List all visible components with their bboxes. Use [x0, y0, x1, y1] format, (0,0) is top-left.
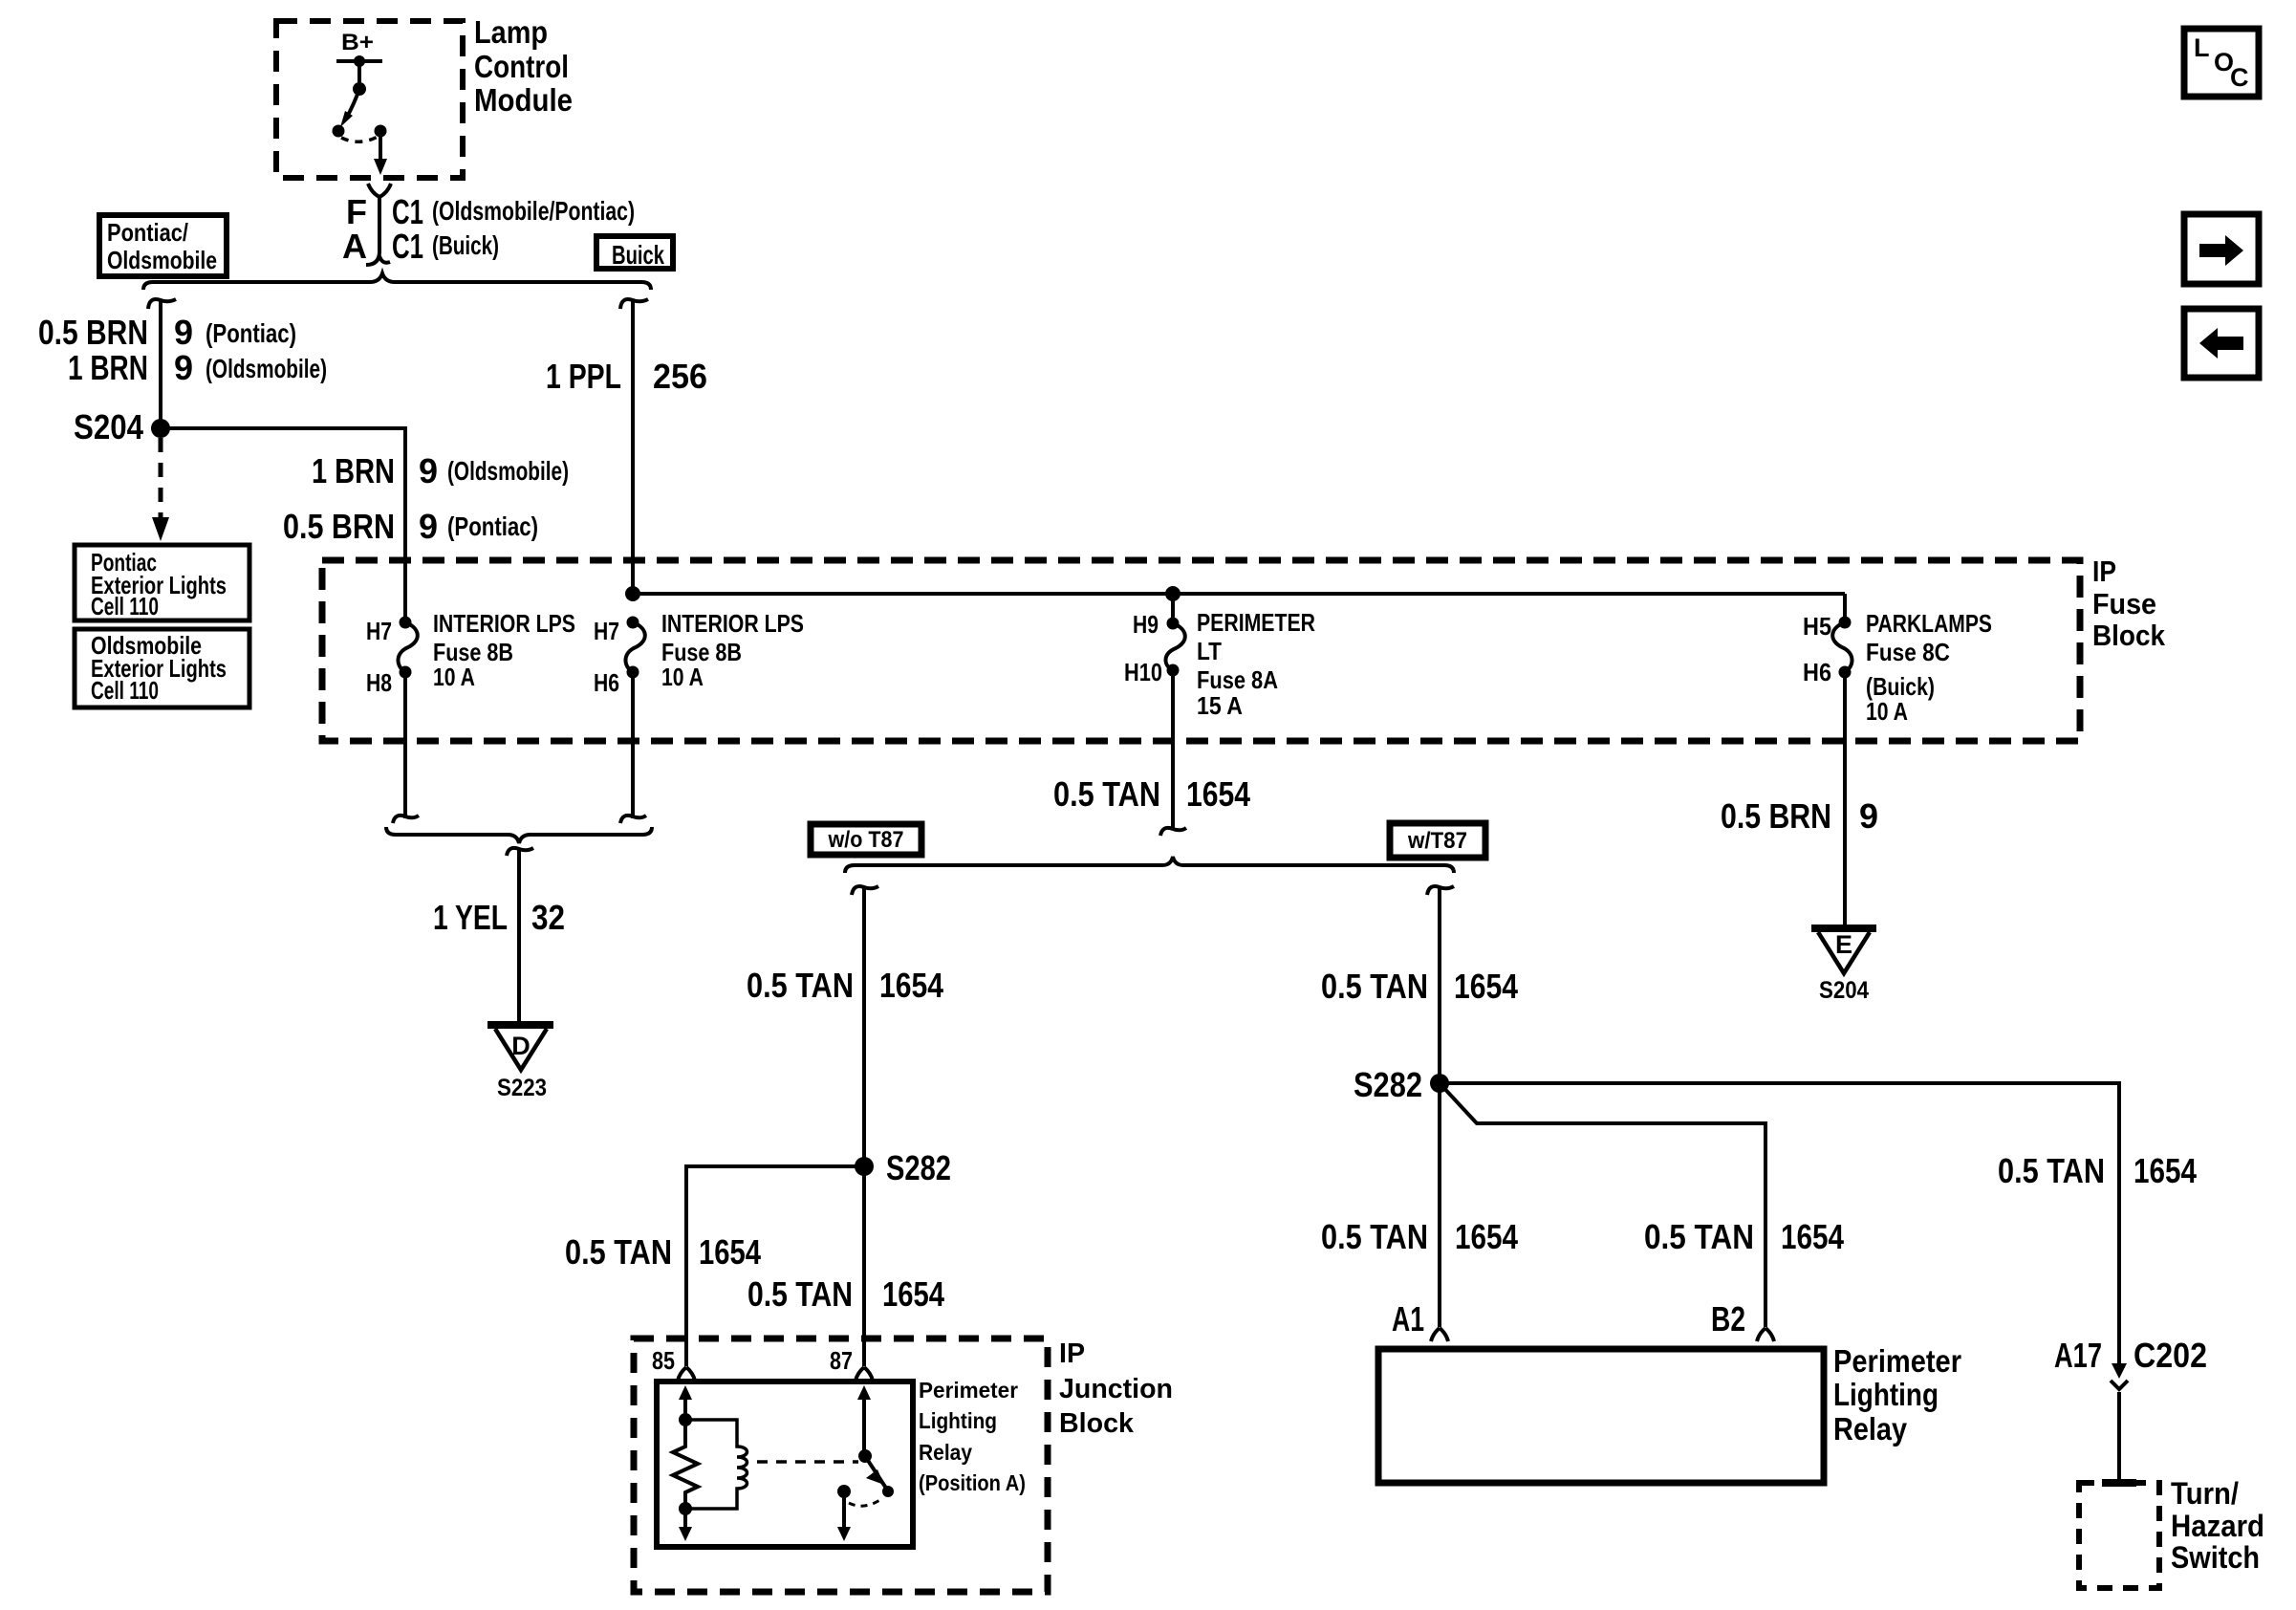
connector C202 arrow	[2112, 1363, 2127, 1379]
svg-text:H9: H9	[1133, 610, 1159, 639]
LOC legend box	[2184, 29, 2259, 97]
svg-text:w/T87: w/T87	[1407, 828, 1467, 854]
svg-text:C1: C1	[392, 227, 423, 266]
svg-text:H6: H6	[594, 668, 619, 697]
resistor inside relay	[673, 1420, 698, 1509]
relay switch travel dashed arc	[849, 1499, 881, 1506]
connector hook top of Buick branch wire	[620, 299, 648, 309]
switch arm with arrowhead	[346, 89, 359, 119]
svg-text:85: 85	[652, 1346, 675, 1375]
connector Y pin B2	[1757, 1328, 1774, 1341]
switch contact dot left	[333, 125, 345, 138]
relay actuation dashed link	[757, 1460, 858, 1464]
svg-text:Cell 110: Cell 110	[91, 676, 159, 705]
svg-text:C1: C1	[392, 192, 423, 231]
connector Y at module output	[368, 184, 391, 197]
junction dot bus at Buick wire	[625, 586, 640, 601]
svg-text:Fuse 8A: Fuse 8A	[1197, 665, 1278, 694]
IP Fuse Block dashed box	[322, 560, 2080, 741]
svg-text:256: 256	[653, 357, 707, 396]
svg-text:Switch: Switch	[2171, 1540, 2260, 1575]
svg-text:PERIMETER: PERIMETER	[1197, 608, 1315, 637]
relay common contact dot	[837, 1485, 851, 1498]
svg-text:H6: H6	[1803, 658, 1831, 686]
switch pivot dot	[353, 82, 366, 96]
svg-text:Control: Control	[474, 49, 569, 84]
svg-text:H5: H5	[1803, 612, 1831, 641]
legend arrow right box	[2184, 214, 2259, 284]
wire S282 to relay B2	[1440, 1083, 1765, 1327]
svg-text:0.5 TAN: 0.5 TAN	[1998, 1151, 2105, 1190]
svg-text:Relay: Relay	[1833, 1411, 1908, 1447]
svg-text:Pontiac/: Pontiac/	[107, 218, 188, 247]
svg-text:1654: 1654	[882, 1274, 944, 1314]
connector Y pin 85	[678, 1367, 695, 1381]
svg-text:1654: 1654	[879, 966, 943, 1005]
relay coil branch arrow up	[679, 1385, 692, 1400]
svg-text:Cell 110: Cell 110	[91, 592, 159, 620]
Lamp Control Module dashed box	[276, 21, 463, 178]
svg-text:Fuse 8C: Fuse 8C	[1866, 638, 1950, 666]
IP Junction Block label	[1059, 1338, 1173, 1439]
wire S204 to fuse block branch	[161, 428, 405, 622]
wire H10 down to brace	[1171, 670, 1175, 830]
svg-text:(Position A): (Position A)	[919, 1470, 1026, 1495]
bus wire inside fuse block	[633, 592, 1845, 596]
junction dot bus at perimeter fuse	[1165, 586, 1180, 601]
wire S282 down to relay pin 87	[862, 1166, 866, 1366]
svg-text:C202: C202	[2134, 1336, 2207, 1375]
coil inside relay	[685, 1420, 747, 1509]
svg-text:Relay: Relay	[919, 1440, 972, 1465]
svg-text:32: 32	[531, 898, 565, 937]
svg-text:Lamp: Lamp	[474, 14, 548, 50]
splice S282 left dot	[855, 1157, 874, 1176]
node B+ dot	[354, 55, 365, 67]
Turn/Hazard Switch label	[2171, 1476, 2264, 1575]
svg-text:Hazard: Hazard	[2171, 1509, 2264, 1543]
svg-text:0.5 TAN: 0.5 TAN	[747, 1274, 853, 1314]
connector hook top w/T87 wire	[1427, 886, 1454, 895]
svg-text:0.5 TAN: 0.5 TAN	[1053, 774, 1160, 814]
relay label	[919, 1378, 1026, 1495]
fuse INTERIOR LPS 8B (middle)	[594, 609, 804, 697]
svg-text:Perimeter: Perimeter	[1833, 1343, 1961, 1379]
connector hook bottom left fuse wire	[393, 816, 419, 823]
wire B+ to switch pivot	[357, 61, 361, 89]
wire left branch (BRN)	[159, 300, 162, 428]
Pontiac/Oldsmobile tag box	[99, 215, 227, 276]
svg-text:1 PPL: 1 PPL	[546, 357, 621, 396]
relay coil branch arrow down	[683, 1509, 687, 1530]
w/T87 tag box	[1390, 823, 1485, 858]
relay switch arm with arrowhead	[865, 1456, 887, 1490]
svg-text:87: 87	[830, 1346, 853, 1375]
relay common arrow down	[842, 1491, 846, 1530]
connector hook bottom perimeter fuse wire	[1160, 828, 1186, 836]
svg-text:INTERIOR LPS: INTERIOR LPS	[433, 609, 575, 638]
svg-text:1654: 1654	[2134, 1151, 2197, 1190]
svg-text:10 A: 10 A	[1866, 697, 1908, 726]
Turn/Hazard Switch dashed box	[2079, 1483, 2159, 1588]
svg-text:S204: S204	[1819, 977, 1869, 1004]
connector hook top w/o T87 wire	[852, 886, 878, 895]
svg-text:Perimeter: Perimeter	[919, 1378, 1018, 1403]
svg-text:(Pontiac): (Pontiac)	[206, 318, 296, 348]
turn/hazard switch top bar	[2102, 1479, 2136, 1487]
wire contact to module edge with arrowhead	[379, 131, 382, 163]
wire w/o T87 branch down	[862, 888, 866, 1166]
svg-text:Turn/: Turn/	[2171, 1476, 2239, 1511]
svg-text:Buick: Buick	[612, 240, 664, 270]
Buick tag box	[596, 236, 673, 270]
svg-text:B2: B2	[1711, 1299, 1745, 1338]
svg-text:Block: Block	[2092, 619, 2166, 652]
connector hook top of YEL wire	[507, 848, 533, 856]
svg-text:A1: A1	[1392, 1299, 1424, 1338]
svg-text:0.5 TAN: 0.5 TAN	[565, 1232, 672, 1272]
svg-text:H10: H10	[1124, 658, 1162, 686]
svg-text:0.5 TAN: 0.5 TAN	[1321, 967, 1428, 1006]
svg-text:(Oldsmobile): (Oldsmobile)	[447, 456, 569, 486]
B+ terminal bar	[336, 59, 382, 63]
Pontiac Exterior Lights Cell 110 box	[75, 545, 249, 620]
svg-text:Lighting: Lighting	[1833, 1377, 1939, 1412]
relay switch pivot dot	[858, 1449, 872, 1463]
svg-text:PARKLAMPS: PARKLAMPS	[1866, 609, 1992, 638]
svg-text:1 YEL: 1 YEL	[433, 898, 508, 937]
svg-text:(Pontiac): (Pontiac)	[447, 511, 538, 541]
Perimeter Lighting Relay box	[1378, 1349, 1824, 1483]
svg-text:Oldsmobile: Oldsmobile	[107, 246, 217, 274]
wire Buick branch (PPL) down into fuse block	[631, 300, 635, 594]
svg-text:(Buick): (Buick)	[432, 230, 499, 260]
svg-text:9: 9	[419, 507, 438, 546]
switch contact dot right	[375, 125, 387, 138]
svg-text:10 A: 10 A	[433, 663, 475, 691]
svg-text:Fuse: Fuse	[2092, 587, 2156, 620]
wire w/T87 branch down	[1438, 888, 1441, 1327]
connector Y pin 87	[856, 1367, 873, 1381]
svg-text:1654: 1654	[699, 1232, 761, 1272]
svg-text:F: F	[346, 192, 367, 231]
fuse PERIMETER LT 8A	[1124, 594, 1315, 720]
svg-text:Module: Module	[474, 82, 573, 118]
IP Junction Block dashed box	[634, 1338, 1048, 1592]
w/o T87 tag box	[811, 824, 921, 855]
svg-text:1 BRN: 1 BRN	[68, 348, 148, 387]
brace splitting perimeter feed	[845, 857, 1454, 873]
relay coil top node dot	[679, 1413, 692, 1426]
svg-text:IP: IP	[1059, 1338, 1085, 1369]
svg-text:0.5 BRN: 0.5 BRN	[1721, 796, 1831, 836]
svg-text:9: 9	[419, 451, 438, 490]
svg-text:B+: B+	[341, 30, 374, 55]
svg-text:1654: 1654	[1781, 1217, 1844, 1256]
wire H6 down to brace	[631, 672, 635, 818]
svg-text:0.5 TAN: 0.5 TAN	[1321, 1217, 1428, 1256]
svg-text:H7: H7	[366, 617, 392, 645]
svg-text:9: 9	[174, 313, 193, 352]
svg-text:0.5 TAN: 0.5 TAN	[1644, 1217, 1754, 1256]
connector hook bottom middle fuse wire	[620, 816, 646, 823]
svg-text:0.5 TAN: 0.5 TAN	[747, 966, 854, 1005]
brace joining interior lamp feeds	[386, 827, 652, 843]
svg-text:(Oldsmobile/Pontiac): (Oldsmobile/Pontiac)	[432, 196, 635, 226]
Oldsmobile Exterior Lights Cell 110 box	[75, 629, 249, 707]
svg-text:D: D	[511, 1032, 531, 1060]
svg-text:9: 9	[174, 348, 193, 387]
legend arrow left box	[2184, 309, 2259, 378]
svg-text:E: E	[1835, 930, 1852, 959]
wire S282 to relay pin 85	[686, 1166, 864, 1366]
svg-text:1654: 1654	[1454, 967, 1518, 1006]
IP Fuse Block label	[2092, 555, 2166, 652]
brace splitting C1 wire to Pontiac/Oldsmobile and Buick branches	[143, 273, 651, 290]
svg-text:LT: LT	[1197, 637, 1222, 665]
wire C202 to turn/hazard switch	[2117, 1392, 2121, 1481]
Perimeter Lighting Relay label	[1833, 1343, 1961, 1447]
connector hook bottom of C1 wire	[366, 251, 390, 265]
svg-text:1654: 1654	[1455, 1217, 1518, 1256]
wire 1 YEL 32	[517, 850, 521, 1025]
svg-text:1 BRN: 1 BRN	[312, 451, 395, 490]
splice S282 right dot	[1430, 1074, 1449, 1093]
svg-text:A17: A17	[2054, 1336, 2102, 1375]
relay switch arrow up	[857, 1385, 871, 1400]
svg-text:S282: S282	[886, 1148, 951, 1187]
svg-text:S204: S204	[74, 407, 143, 446]
svg-text:(Oldsmobile): (Oldsmobile)	[206, 354, 327, 383]
wire PARKLAMPS down to ground symbol	[1843, 672, 1847, 926]
dashed wire S204 to exterior lights with arrowhead	[159, 438, 163, 518]
splice S204 dot	[151, 419, 170, 438]
svg-text:A: A	[342, 227, 367, 266]
fuse INTERIOR LPS 8B (left)	[366, 609, 575, 697]
wire S282 to turn/hazard switch	[1440, 1083, 2119, 1366]
svg-text:S223: S223	[497, 1075, 547, 1101]
svg-text:10 A: 10 A	[661, 663, 704, 691]
connector Y pin A1	[1431, 1328, 1448, 1341]
svg-text:INTERIOR LPS: INTERIOR LPS	[661, 609, 804, 638]
svg-text:Block: Block	[1059, 1408, 1135, 1439]
svg-text:15 A: 15 A	[1197, 691, 1243, 720]
svg-text:H8: H8	[366, 668, 392, 697]
svg-text:L: L	[2194, 33, 2210, 62]
Perimeter Lighting Relay (Position A) box	[657, 1382, 913, 1547]
fuse PARKLAMPS 8C	[1803, 594, 1992, 726]
svg-text:0.5 BRN: 0.5 BRN	[38, 313, 148, 352]
svg-text:H7: H7	[594, 617, 619, 645]
svg-text:Lighting: Lighting	[919, 1408, 997, 1433]
splice triangle E	[1811, 928, 1876, 973]
svg-text:S282: S282	[1354, 1065, 1422, 1104]
svg-text:0.5 BRN: 0.5 BRN	[283, 507, 395, 546]
connector hook top of left branch wire	[148, 299, 176, 309]
wire H8 down to brace	[403, 672, 407, 818]
svg-text:1654: 1654	[1186, 774, 1250, 814]
Lamp Control Module label	[474, 14, 573, 118]
svg-text:9: 9	[1859, 796, 1878, 836]
splice triangle D	[487, 1025, 553, 1070]
svg-text:w/o T87: w/o T87	[828, 827, 904, 853]
svg-text:IP: IP	[2092, 555, 2116, 588]
svg-text:C: C	[2230, 63, 2249, 92]
svg-text:Junction: Junction	[1059, 1374, 1173, 1404]
switch travel dashed arc	[341, 137, 378, 141]
wire F/A C1	[378, 197, 381, 253]
relay coil bottom node dot	[679, 1502, 692, 1515]
